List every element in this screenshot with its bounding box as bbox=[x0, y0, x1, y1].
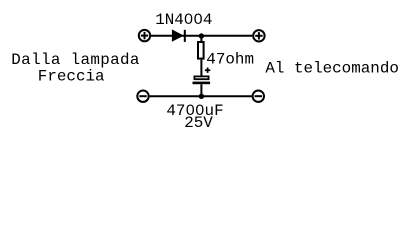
svg-text:47ohm: 47ohm bbox=[206, 51, 254, 69]
svg-text:Freccia: Freccia bbox=[38, 68, 105, 86]
svg-text:Dalla lampada: Dalla lampada bbox=[11, 51, 140, 69]
svg-text:1N4004: 1N4004 bbox=[155, 11, 212, 29]
svg-text:Al telecomando: Al telecomando bbox=[265, 60, 399, 78]
svg-text:25V: 25V bbox=[184, 114, 213, 132]
